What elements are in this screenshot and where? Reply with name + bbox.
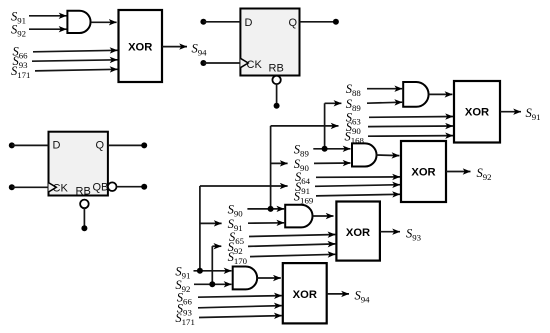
wire QB output (U6) [117,186,145,188]
svg-text:XOR: XOR [465,107,489,119]
wire U0 output to S94 [162,46,187,48]
wire net S90 feed arrow to G1 label [271,125,339,127]
svg-text:XOR: XOR [128,42,152,54]
wire A1 output to XOR U1 [429,93,453,95]
wire U2 output to S92 [446,171,471,173]
junction net S91 [197,268,203,274]
wire CK input (U5) [203,62,240,64]
junction net S89 [322,146,328,152]
wire net S92 feed arrow to G3 label [212,245,221,247]
wire S90 to XOR U1 [368,125,453,128]
svg-text:XOR: XOR [293,289,317,301]
wire net S89 feed arrow to G1 label [325,102,342,104]
node QB output (U6) [141,184,147,190]
wire D input (U6) [12,144,49,146]
wire S89 to AND A2 in1 [313,148,350,150]
xor block U2 [401,141,446,202]
svg-text:XOR: XOR [411,167,435,179]
svg-text:XOR: XOR [346,227,370,239]
and-gate A1 [403,82,428,107]
svg-text:D: D [53,140,61,152]
wire Q output (U5) [300,21,336,23]
wire net S90 vertical [270,126,272,209]
node D input (U6) [9,142,15,148]
wire net S91 feed arrow to G3 label [200,222,222,224]
node Q output (U5) [333,19,339,25]
clock edge triangle (U6) [49,183,57,192]
wire net S91 vertical [199,186,201,271]
wire S65 to XOR U3 [249,235,335,237]
wire S93 to XOR U4 [198,306,282,308]
wire RB input (U6) [83,208,85,228]
wire S88 to AND A1 in1 [367,88,402,90]
svg-text:RB: RB [269,62,284,74]
wire S169 to XOR U2 [316,194,400,196]
flip-flop U6 body [49,132,108,196]
wire D input (U5) [203,21,240,23]
wire S91 to XOR U2 [315,185,400,187]
node Q output (U6) [141,142,147,148]
wire S93 to XOR U0 [32,60,118,61]
wire S171 to XOR U0 [35,69,118,71]
node CK input (U6) [9,184,15,190]
wire RB input (U5) [276,84,278,106]
wire S64 to XOR U2 [316,176,400,178]
wire CK input (U6) [12,186,49,188]
and-gate A0 [67,11,90,33]
svg-text:CK: CK [247,59,263,71]
wire S91 to AND A0 in1 [29,15,67,17]
wire S89 to AND A1 in2 [367,102,402,103]
svg-text:D: D [245,17,253,29]
wire S171 to XOR U4 [199,316,282,318]
inversion bubble on RB (U6) [80,200,89,209]
wire net S89 vertical [324,103,326,149]
wire S66 to XOR U4 [198,296,282,298]
wire S90 to AND A3 in1 [247,208,284,210]
wire U3 output to S93 [380,231,400,233]
wire Q output (U6) [108,144,144,146]
inversion bubble on RB (U5) [272,76,280,84]
wire A2 output to XOR U2 [376,154,400,157]
wire S168 to XOR U1 [368,135,453,138]
inversion bubble on QB (U6) [108,182,117,191]
wire U4 output to S94 [327,293,349,295]
xor block U4 [283,263,327,323]
node CK input (U5) [200,60,206,66]
wire S92 to AND A0 in2 [29,28,67,30]
wire S92 to XOR U3 [248,244,335,247]
wire S91 to AND A4 in1 [194,270,232,272]
flip-flop U5 body [240,9,299,76]
xor block U3 [336,202,380,261]
node RB input (U5) [274,103,280,109]
wire A4 output to XOR U4 [257,277,281,279]
wire S66 to XOR U0 [33,50,118,52]
clock edge triangle (U5) [240,58,248,67]
node D input (U5) [200,19,206,25]
xor block U1 [454,81,500,143]
svg-text:Q: Q [289,17,298,29]
wire S63 to XOR U1 [369,116,453,119]
wire S92 to AND A4 in2 [194,283,232,285]
and-gate A3 [285,205,312,228]
wire S90 to AND A2 in2 [314,162,351,164]
junction net S92 [209,281,215,287]
svg-text:QB: QB [93,181,109,193]
wire net S91 feed arrow to G2 label [200,185,288,187]
node RB input (U6) [81,225,87,231]
wire net S90 feed arrow to G2 label [271,162,288,164]
wire U1 output to S91 [500,111,521,113]
and-gate A4 [233,267,257,290]
xor block U0 [119,10,163,82]
wire S170 to XOR U3 [250,254,335,256]
svg-text:Q: Q [96,140,105,152]
wire A0 output to XOR U0 [91,21,117,23]
junction net S90 [268,206,274,212]
wire S91 to AND A3 in2 [248,222,284,224]
wire net S92 vertical [211,246,213,284]
and-gate A2 [352,143,377,166]
wire A3 output to XOR U3 [313,215,334,217]
svg-text:RB: RB [76,186,91,198]
